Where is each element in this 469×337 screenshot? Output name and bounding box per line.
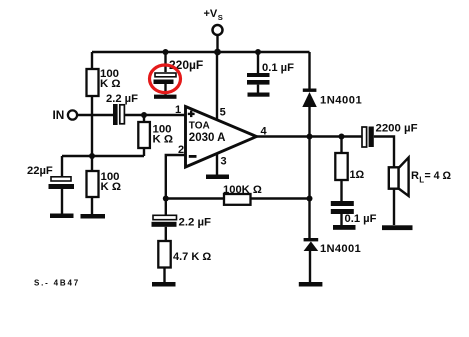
wire rail corner down to D1 [308, 52, 310, 89]
input terminal IN [53, 108, 78, 122]
svg-text:R: R [411, 170, 419, 182]
top supply rail wire [92, 51, 310, 54]
svg-text:3: 3 [221, 156, 227, 168]
diode D1 1N4001 (output to +Vs) [302, 89, 362, 137]
svg-text:1Ω: 1Ω [350, 169, 365, 181]
svg-text:22µF: 22µF [27, 165, 53, 177]
svg-text:+V: +V [204, 8, 218, 20]
junction bias node [89, 153, 95, 159]
ground (220uF) [154, 95, 177, 99]
svg-text:4.7 K Ω: 4.7 K Ω [173, 251, 211, 263]
wire R1 bottom down to bias node (crosses IN line, no connection) [91, 96, 93, 171]
svg-text:0.1 µF: 0.1 µF [262, 62, 294, 74]
resistor R2 100 KΩ (bias node to ground) [87, 171, 122, 214]
wire input cap to pin1 node [125, 114, 186, 116]
wire 2200uF to speaker [374, 137, 394, 168]
bias node wire (22uF - node - R3 bottom) [62, 155, 144, 157]
capacitor C7 2200 µF (output coupling) [362, 123, 418, 147]
svg-text:0.1 µF: 0.1 µF [345, 213, 377, 225]
svg-text:IN: IN [53, 108, 65, 122]
capacitor C4 2.2 µF (feedback) [152, 199, 212, 242]
wire feedback node to Rf [166, 197, 224, 199]
svg-text:S: S [218, 13, 223, 22]
ground (pin 3) [206, 175, 229, 180]
wire output (pin 4) [257, 135, 363, 137]
junction on rail at 220uF branch [163, 49, 169, 55]
svg-text:220µF: 220µF [169, 58, 203, 72]
ground (0.1uF Zobel) [333, 225, 356, 230]
wire Rf to output branch [250, 197, 310, 199]
resistor Rf 100K Ω (feedback) [223, 184, 262, 205]
red highlight circle annotation [150, 65, 181, 93]
junction on rail at +Vs / pin5 [214, 49, 221, 56]
svg-text:K Ω: K Ω [153, 134, 174, 146]
capacitor C6 0.1 µF (Zobel) [331, 201, 377, 225]
capacitor C5 0.1 µF (supply bypass) [247, 52, 294, 93]
ground (D2) [299, 282, 323, 287]
speaker RL = 4Ω [389, 158, 452, 226]
svg-text:K Ω: K Ω [100, 78, 121, 90]
wire pin 3 to ground [216, 154, 218, 175]
svg-text:2.2 µF: 2.2 µF [106, 93, 138, 105]
ground (speaker) [382, 225, 413, 230]
diode D2 1N4001 (ground to output) [304, 238, 361, 282]
svg-text:S.- 4B47: S.- 4B47 [34, 279, 80, 288]
resistor R4 4.7 KΩ [158, 241, 211, 282]
ground (4.7K) [152, 282, 176, 287]
svg-text:2030 A: 2030 A [189, 132, 226, 144]
wire IN terminal to input cap [77, 114, 113, 116]
ground (0.1uF supply) [248, 93, 270, 97]
wire pin 5 to rail [216, 52, 218, 120]
op-amp U1 TDA2030A [186, 107, 257, 168]
junction output / D1 branch [307, 134, 313, 140]
svg-text:100K Ω: 100K Ω [223, 184, 262, 196]
ground (22uF) [50, 214, 74, 219]
resistor R5 1Ω (Zobel) [335, 137, 364, 202]
ground (R2) [81, 214, 106, 219]
svg-text:K Ω: K Ω [101, 181, 122, 193]
junction on rail at 0.1uF branch [255, 49, 261, 55]
wire output branch down (D1 node to D2) [308, 137, 310, 239]
resistor R3 100 KΩ (pin1 node to bias node) [138, 115, 173, 156]
capacitor C3 220 µF (supply decoupling) [154, 52, 204, 95]
svg-text:TOA: TOA [189, 120, 210, 131]
svg-text:2.2 µF: 2.2 µF [179, 217, 212, 229]
svg-text:1N4001: 1N4001 [320, 95, 362, 107]
junction output / Zobel branch [339, 134, 345, 140]
junction feedback node [163, 196, 169, 202]
svg-text:5: 5 [220, 107, 226, 119]
svg-text:1: 1 [175, 104, 181, 116]
capacitor C1 2.2 µF input coupling [106, 93, 138, 125]
resistor R1 100 KΩ (Vs to bias node) [87, 52, 121, 96]
capacitor C2 22 µF [27, 156, 74, 214]
+Vs supply terminal [204, 8, 223, 52]
svg-text:2200 µF: 2200 µF [376, 123, 418, 135]
node at pin1 / R3 top [141, 112, 147, 118]
svg-text:1N4001: 1N4001 [320, 243, 361, 255]
svg-text:= 4 Ω: = 4 Ω [425, 170, 452, 182]
wire pin 2 to feedback node [166, 155, 186, 199]
svg-text:L: L [419, 176, 424, 185]
junction output branch / feedback [307, 196, 313, 202]
